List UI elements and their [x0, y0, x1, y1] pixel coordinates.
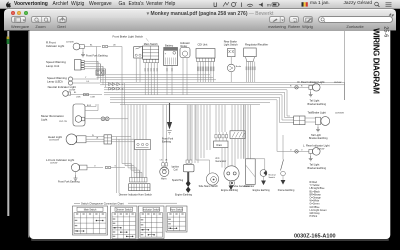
ground: front fork earthing (center) — [169, 103, 171, 122]
wire: regulator drop — [250, 62, 252, 83]
component: rectifier box (hatched) — [230, 131, 245, 139]
wire: regulator drop — [252, 62, 254, 83]
wire: tail light feeds — [287, 115, 290, 117]
wire: head light wires — [86, 136, 104, 138]
svg-text:25-6: 25-6 — [383, 26, 389, 37]
svg-text:Brake: Brake — [236, 66, 242, 68]
connector: dimmer/indicator/horn switch block — [130, 178, 148, 183]
svg-text:Drain: Drain — [217, 144, 223, 147]
svg-text:Lamp Unit: Lamp Unit — [46, 64, 59, 68]
svg-text:Dimmer Switch: Dimmer Switch — [116, 209, 132, 212]
wire bundle: CDI/regulator verticals — [188, 105, 190, 160]
chart table: Main Switch — [73, 206, 108, 235]
wire: regulator drop — [245, 62, 247, 83]
svg-text:12V10W: 12V10W — [317, 149, 324, 151]
svg-text:Main Switch: Main Switch — [84, 209, 97, 212]
wire: meter wires — [85, 106, 96, 108]
svg-text:12V18/5W: 12V18/5W — [335, 112, 344, 114]
svg-text:Front Fork Earthing: Front Fork Earthing — [58, 180, 80, 183]
wire: CDI drop — [200, 62, 202, 83]
white PDF page — [30, 31, 391, 240]
ground: engine earthing (A.C. generator) — [230, 181, 232, 186]
ground: frame earthing — [282, 176, 284, 180]
svg-text:Frame Earthing: Frame Earthing — [278, 189, 295, 192]
svg-text:12V10W: 12V10W — [66, 41, 74, 43]
wire: left jogs — [122, 118, 128, 120]
chart table: Dimmer Switch — [111, 206, 138, 240]
spark plug — [187, 172, 189, 181]
svg-text:W: W — [92, 135, 94, 137]
ground: tail light bracket earthing 1 — [310, 89, 312, 92]
wire: side stand lead — [209, 160, 211, 173]
ground: engine earthing (neutral) — [263, 176, 265, 180]
svg-text:WIRING DIAGRAM: WIRING DIAGRAM — [371, 28, 380, 94]
wire: nested corners into dimmer coupler — [122, 164, 132, 178]
svg-text:Horn: Horn — [161, 177, 167, 180]
wire: main switch drop — [150, 63, 152, 95]
wire: CDI drop — [205, 62, 207, 83]
horn — [160, 167, 169, 176]
wire bundle: right-center verticals — [215, 105, 217, 132]
wire bundle: main harness — [100, 81, 345, 83]
page shadow — [31, 239, 389, 241]
pin: speed warning unit pin — [81, 65, 84, 67]
svg-text:Bracket Earthing: Bracket Earthing — [308, 103, 327, 106]
connector: meter bullet connectors — [101, 117, 105, 121]
svg-text:Dimmer Indicator Horn Switch: Dimmer Indicator Horn Switch — [119, 193, 153, 196]
svg-text:Regulator/Rectifier: Regulator/Rectifier — [245, 42, 268, 46]
connector: head light coupler — [104, 135, 112, 144]
svg-text:Neutral: Neutral — [269, 173, 277, 176]
page edge rule — [344, 31, 346, 100]
svg-text:Tail/Brake Light: Tail/Brake Light — [308, 110, 327, 114]
wire: CDI drop — [197, 62, 199, 83]
spring: rear brake switch — [227, 64, 235, 72]
svg-text:12V1.7W: 12V1.7W — [59, 121, 67, 123]
pin row: drain — [215, 135, 217, 138]
wire: R rear feed — [104, 86, 309, 88]
wire: main switch drop — [144, 63, 146, 95]
svg-text:Generator: Generator — [244, 185, 255, 188]
wire: main switch drop — [147, 63, 149, 95]
wire: R front indicator to harness — [84, 46, 101, 48]
wire: generator box links — [255, 159, 265, 170]
connector: L rear bullet — [295, 150, 299, 154]
svg-text:Front Fork Earthing: Front Fork Earthing — [86, 55, 108, 58]
wire bundle: main harness upper (left) — [97, 74, 211, 76]
svg-text:Light: Light — [41, 118, 47, 122]
svg-text:Bracket Earthing: Bracket Earthing — [308, 167, 327, 170]
connector: R rear bullet — [295, 86, 299, 90]
svg-text:12V25/25W: 12V25/25W — [49, 140, 59, 142]
svg-text:Indicator Switch: Indicator Switch — [143, 209, 160, 212]
connector: harness couplers — [109, 83, 116, 86]
wire: regulator drop — [254, 62, 256, 83]
chart table: Indicator Switch — [139, 206, 165, 239]
ground: tail light bracket earthing 2 — [317, 125, 319, 128]
svg-text:Switch Changeover Connection C: Switch Changeover Connection Chart — [81, 201, 124, 205]
wire: front brake switch drops — [135, 58, 137, 82]
ground: front fork earthing (top) — [82, 48, 84, 52]
wire: CDI drop — [207, 62, 209, 83]
drain box — [214, 141, 229, 148]
wire: generator feeds — [221, 148, 223, 168]
pin: speed warning unit pin — [81, 63, 84, 65]
svg-text:Ignition: Ignition — [172, 165, 180, 168]
svg-text:P=Pink: P=Pink — [310, 215, 318, 218]
pin row: main switch — [144, 59, 159, 62]
switch: neutral switch — [260, 170, 267, 177]
wire bundle: center verticals to dimmer switch — [121, 105, 123, 164]
switch block: dimmer mechanism — [135, 140, 151, 150]
wire: battery leads — [166, 66, 168, 96]
wire: CDI drop — [213, 62, 215, 83]
wire: horn feed pair — [162, 105, 164, 163]
wire: lower harness lines — [110, 101, 270, 103]
wire: main switch drop — [156, 63, 158, 95]
svg-text:Side Stand Switch: Side Stand Switch — [199, 185, 219, 188]
svg-text:LG: LG — [87, 81, 90, 83]
svg-text:Lamp (LED): Lamp (LED) — [47, 79, 63, 83]
svg-text:Light Switch: Light Switch — [224, 43, 239, 47]
svg-text:Engine Earthing: Engine Earthing — [221, 189, 239, 192]
ground: front fork earthing (bottom) — [75, 172, 77, 176]
svg-text:Indicator Light: Indicator Light — [46, 44, 64, 48]
ground: tail light bracket earthing 3 — [310, 153, 312, 156]
svg-text:Spark Plug: Spark Plug — [172, 179, 184, 182]
wire: regulator drop — [248, 62, 250, 83]
svg-text:Neutral Indicator Light: Neutral Indicator Light — [48, 85, 76, 89]
pin: speed warning unit pin — [81, 68, 84, 70]
ground: engine earthing (spark) — [186, 187, 191, 193]
wire bundle: left vertical drops — [96, 47, 98, 75]
svg-text:Earthing: Earthing — [162, 140, 172, 143]
wire bundle: right vertical group — [286, 90, 288, 116]
svg-text:Engine Earthing: Engine Earthing — [253, 189, 271, 192]
pin: speed warning unit pin — [81, 60, 84, 62]
wire: relay drops — [182, 58, 184, 96]
connector: regulator coupler — [246, 57, 255, 62]
svg-text:12V10W: 12V10W — [334, 82, 341, 84]
wire: page-edge drop — [344, 82, 346, 100]
svg-text:Engine Earthing: Engine Earthing — [175, 194, 193, 197]
page left edge shade — [28, 31, 29, 238]
svg-text:BL: BL — [74, 92, 76, 94]
wire bundle: harness with right corner turns — [104, 89, 287, 91]
switch: side stand switch — [206, 173, 218, 185]
connector: junction box — [96, 70, 104, 75]
wire: CDI drop — [210, 62, 212, 83]
svg-text:Coil: Coil — [174, 169, 178, 171]
svg-text:Generator: Generator — [215, 160, 226, 163]
svg-text:L.Front Indicator Light: L.Front Indicator Light — [46, 158, 74, 162]
svg-text:CDI Unit: CDI Unit — [198, 42, 208, 46]
svg-text:Main Switch: Main Switch — [144, 42, 159, 46]
chart table: Horn Switch — [166, 206, 187, 232]
switch: frame switch lever — [282, 135, 284, 160]
wire: ignition coil feeds — [186, 105, 188, 160]
svg-text:L. Rear Indicator Light: L. Rear Indicator Light — [303, 143, 330, 147]
pulse generator — [229, 180, 234, 185]
svg-text:R. Rear Indicator Light: R. Rear Indicator Light — [298, 80, 325, 84]
svg-text:12V10W: 12V10W — [50, 163, 57, 165]
svg-text:Horn Switch: Horn Switch — [170, 209, 183, 212]
svg-text:Switch: Switch — [269, 176, 276, 179]
svg-text:Bracket Earthing: Bracket Earthing — [309, 137, 328, 140]
svg-text:LG/R: LG/R — [91, 96, 96, 98]
svg-text:LG/R: LG/R — [76, 96, 81, 98]
svg-text:Head Light: Head Light — [48, 135, 62, 139]
svg-text:0030Z-165-A100: 0030Z-165-A100 — [294, 234, 336, 240]
wire bundle: left pass-down trio — [116, 150, 118, 193]
component: generator coil box — [246, 159, 256, 185]
wire: main switch drop — [153, 63, 155, 95]
pin row: CDI — [197, 58, 215, 61]
connector: tail light coupler — [294, 116, 305, 125]
svg-text:Front Brake Light Switch: Front Brake Light Switch — [113, 34, 144, 38]
wire: CDI drop — [202, 62, 204, 83]
svg-text:BL/R: BL/R — [87, 105, 92, 107]
svg-text:Battery: Battery — [165, 44, 174, 48]
background window edge strip — [7, 31, 9, 216]
